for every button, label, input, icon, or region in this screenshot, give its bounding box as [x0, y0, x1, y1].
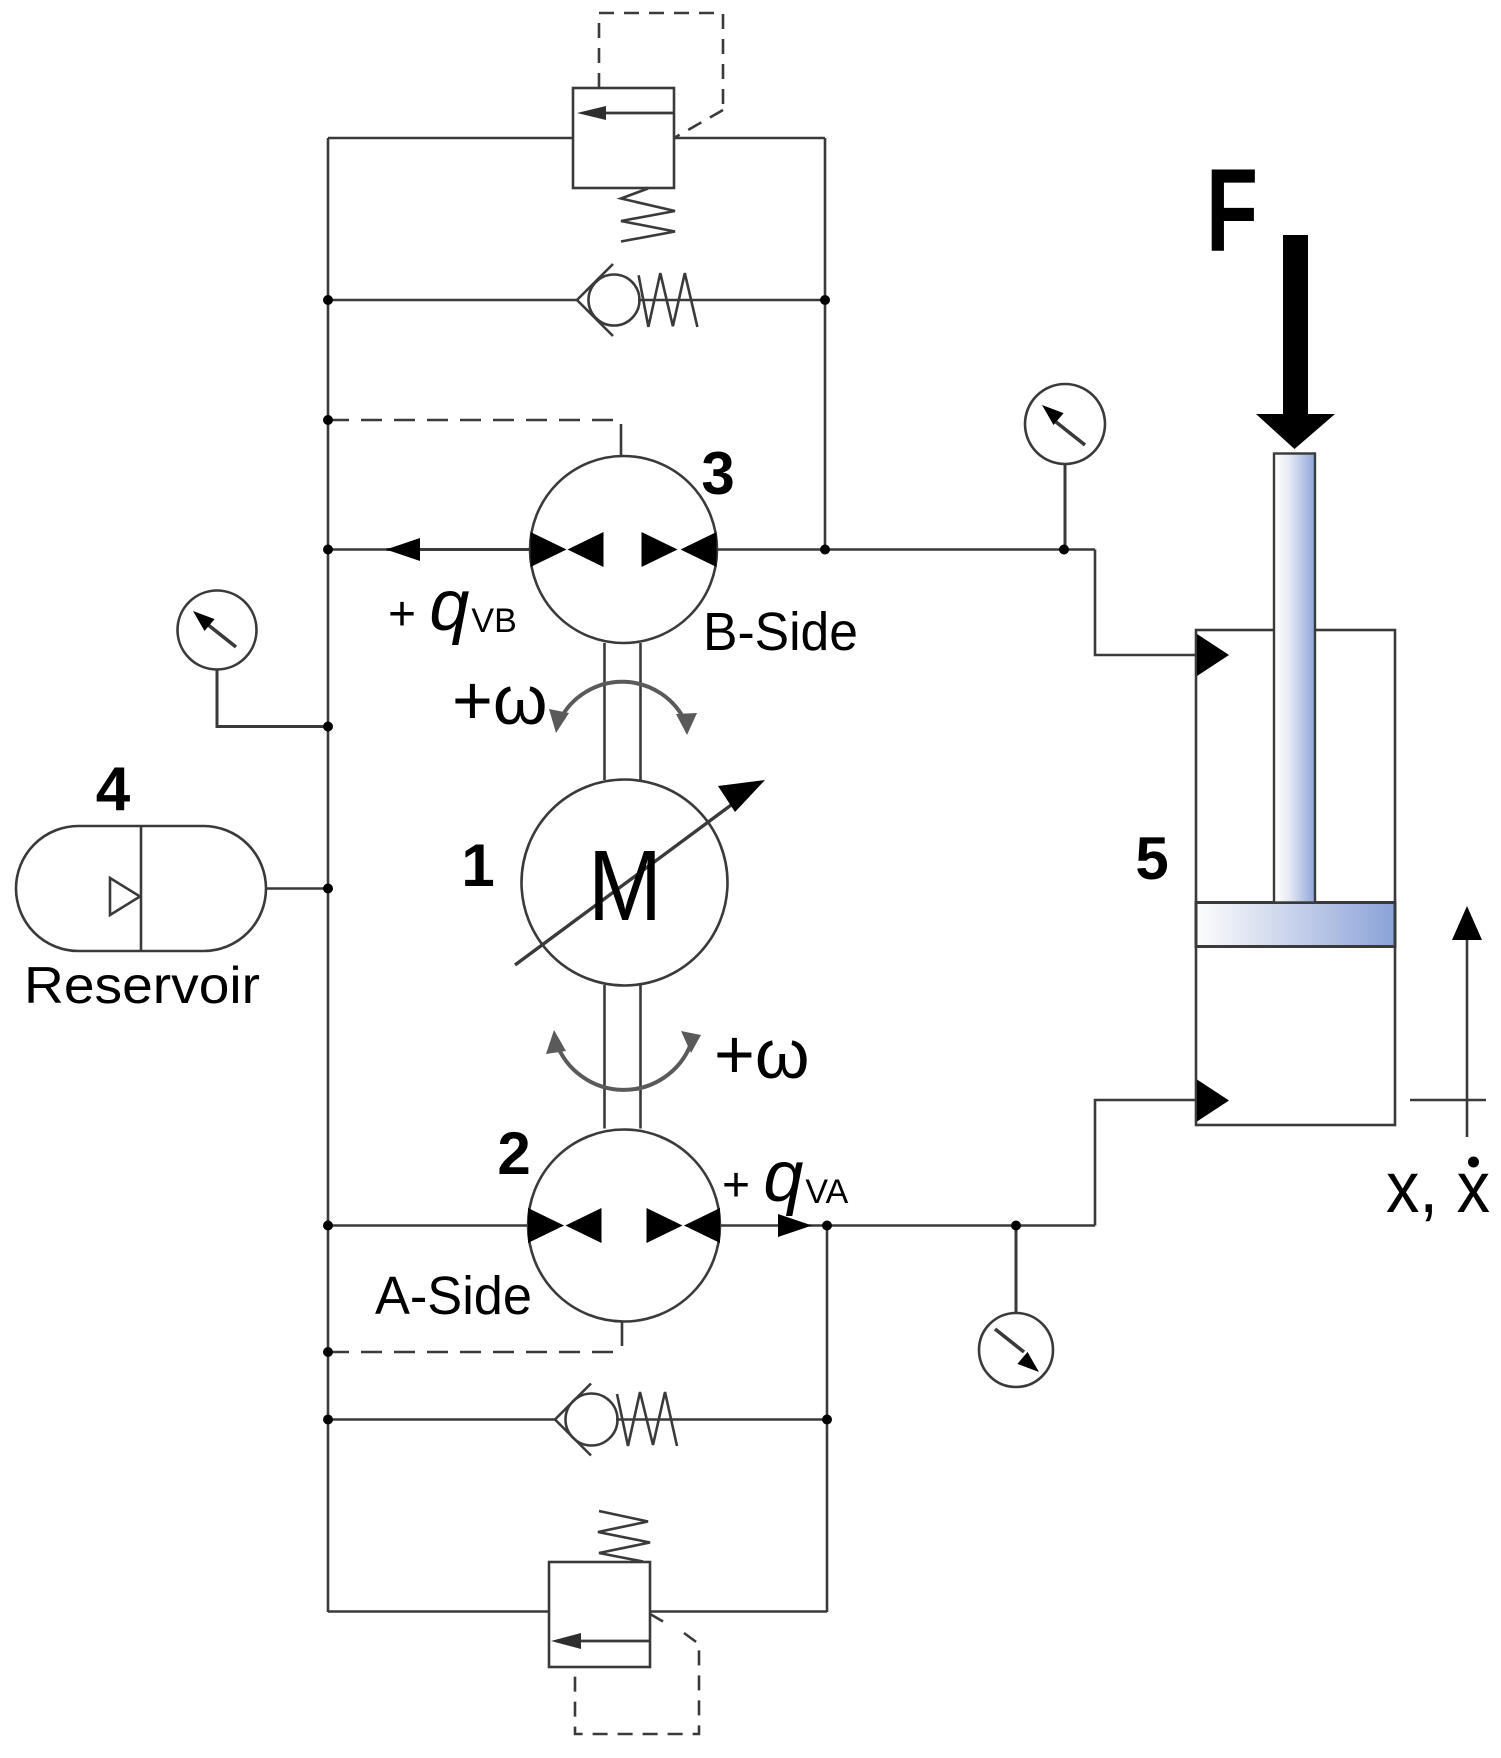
relief valve RV2 body — [549, 1562, 650, 1667]
cylinder body — [1196, 630, 1395, 1125]
wire bottom horizontal left — [328, 1610, 549, 1613]
wire to cylinder bottom port — [1095, 1100, 1196, 1226]
relief valve RV1 internal arrow — [577, 106, 674, 120]
pump 2 drain tick — [621, 1322, 624, 1346]
reservoir triangle — [110, 878, 140, 915]
pump 2 drain dashed line — [328, 1351, 614, 1354]
wire B-side left — [328, 548, 530, 551]
relief valve RV2 pilot dashed path — [575, 1633, 699, 1734]
svg-text:F: F — [1206, 145, 1258, 277]
flow arrow qVB — [386, 538, 530, 561]
gauge G2 stem — [1064, 464, 1067, 550]
wire A-side left — [328, 1224, 528, 1227]
svg-text:+ qVB: + qVB — [388, 566, 517, 646]
check valve CV1 line right — [638, 299, 825, 302]
rotation arrow top — [549, 682, 697, 735]
check valve CV1 line left — [328, 299, 578, 302]
pump 2 circle — [528, 1130, 720, 1322]
gauge G2 needle — [1042, 405, 1085, 445]
svg-text:+ qVA: + qVA — [722, 1137, 849, 1217]
cylinder top port arrow — [1197, 634, 1229, 676]
cylinder rod — [1274, 454, 1315, 903]
relief valve RV1 pilot dashed diagonal — [674, 110, 723, 138]
x axis arrow — [1410, 906, 1486, 1137]
wire to cylinder top port — [1095, 550, 1196, 656]
svg-text:B-Side: B-Side — [703, 602, 858, 662]
svg-text:M: M — [588, 830, 662, 942]
svg-text:2: 2 — [497, 1120, 530, 1187]
relief valve RV2 pilot dashed line — [650, 1614, 671, 1626]
check valve CV1 ball — [589, 275, 640, 326]
svg-text:A-Side: A-Side — [375, 1266, 532, 1326]
gauge G3 stem — [1015, 1226, 1018, 1314]
check valve CV1 spring — [639, 273, 698, 327]
check valve CV2 seat — [555, 1384, 591, 1456]
gauge G3 needle — [995, 1329, 1039, 1372]
gauge G1 stem — [217, 670, 328, 727]
check valve CV2 spring — [617, 1392, 677, 1446]
check valve CV2 line right — [616, 1418, 827, 1421]
wire B-side right — [717, 548, 1095, 551]
pump 3 circle — [530, 456, 717, 643]
pump 3 drain tick — [620, 424, 623, 456]
shaft upper — [605, 643, 641, 780]
pump 3 drain dashed line — [328, 419, 618, 422]
motor M circle — [522, 780, 728, 986]
svg-text:5: 5 — [1135, 825, 1168, 892]
wire left bus vertical — [327, 138, 330, 1612]
rotation arrow bottom — [546, 1030, 701, 1090]
shaft lower — [605, 985, 641, 1129]
pump 3 triangles — [531, 532, 717, 567]
reservoir capsule — [16, 826, 266, 951]
reservoir wire — [266, 887, 328, 890]
svg-text:+ω: +ω — [714, 1015, 810, 1093]
cylinder piston — [1196, 903, 1395, 947]
wire top horizontal left segment — [328, 137, 573, 140]
svg-text:+ω: +ω — [452, 661, 548, 739]
check valve CV2 ball — [566, 1394, 618, 1446]
cylinder bottom port arrow — [1197, 1080, 1229, 1122]
wire right bus top vertical — [824, 138, 827, 550]
relief valve RV2 internal arrow — [551, 1633, 650, 1649]
wire bottom horizontal right — [650, 1610, 827, 1613]
wire A-side right — [720, 1224, 1095, 1227]
wire top horizontal right segment — [674, 137, 825, 140]
gauge G1 needle — [193, 611, 236, 647]
relief valve RV1 spring — [621, 189, 675, 242]
check valve CV2 line left — [328, 1418, 556, 1421]
force F arrow — [1256, 235, 1335, 449]
svg-text:3: 3 — [701, 440, 734, 507]
gauge G2 circle — [1025, 384, 1105, 464]
relief valve RV1 pilot dashed line — [599, 13, 723, 107]
reservoir divider — [140, 826, 143, 951]
gauge G1 circle — [178, 591, 257, 670]
svg-text:1: 1 — [461, 832, 494, 899]
flow arrow qVA — [778, 1214, 812, 1237]
xdot dot — [1468, 1157, 1479, 1168]
relief valve RV2 spring — [598, 1511, 650, 1562]
gauge G3 circle — [979, 1313, 1053, 1387]
relief valve RV1 body — [573, 88, 674, 188]
pump 2 triangles — [528, 1208, 720, 1243]
check valve CV1 seat — [577, 264, 613, 336]
svg-text:Reservoir: Reservoir — [24, 957, 260, 1015]
wire right bus bottom vertical — [826, 1226, 829, 1613]
svg-text:4: 4 — [96, 755, 131, 824]
motor variable arrow — [515, 780, 765, 965]
